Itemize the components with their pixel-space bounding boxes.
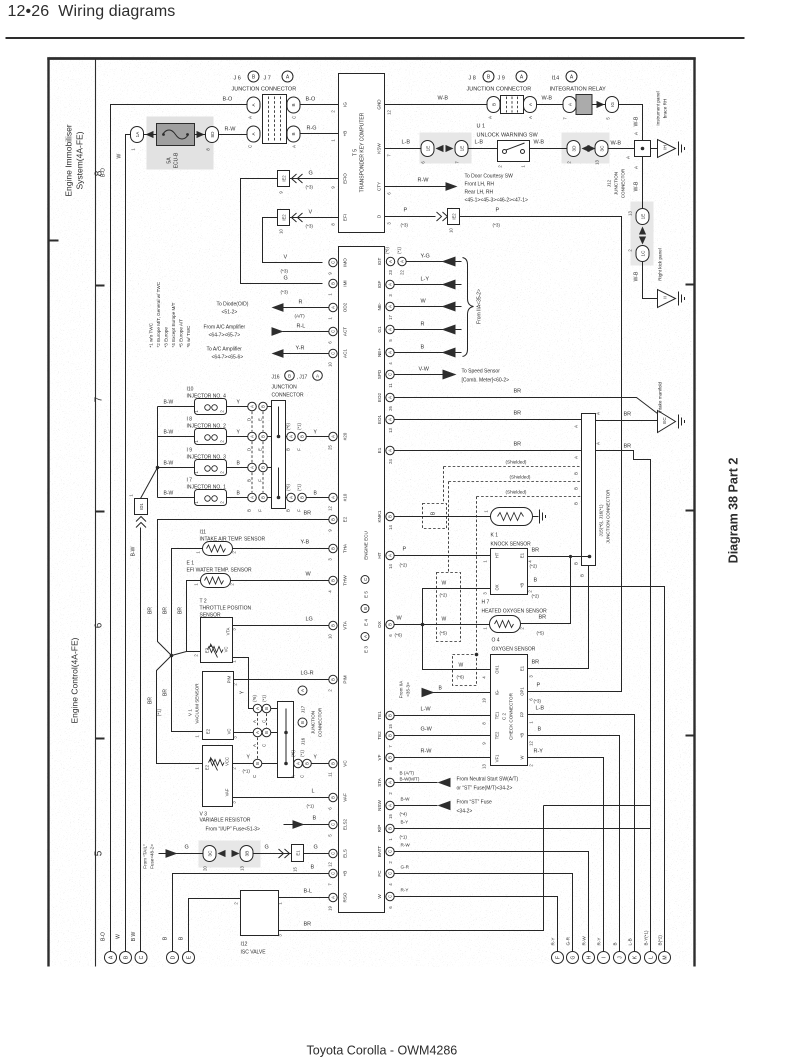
connector oval 3C <box>595 141 609 165</box>
svg-text:From IIA: From IIA <box>399 680 404 699</box>
node J15 row 450 <box>588 449 592 453</box>
ECU pin TE2 <box>377 731 394 748</box>
ECU pin TE1 <box>377 711 394 729</box>
svg-text:5: 5 <box>94 850 105 856</box>
svg-text:*5 Europe A/T: *5 Europe A/T <box>179 319 184 348</box>
svg-text:HT: HT <box>377 552 382 558</box>
svg-text:K 1: K 1 <box>491 533 499 539</box>
svg-text:J 8: J 8 <box>469 76 476 82</box>
svg-text:D: D <box>247 418 252 421</box>
connector box ID1 <box>129 494 148 515</box>
svg-text:J16: J16 <box>272 375 280 381</box>
label J8 J9 junction connector <box>467 71 532 93</box>
terminal E <box>183 952 195 964</box>
svg-text:B: B <box>331 624 336 627</box>
ECU pin VF <box>377 753 394 769</box>
svg-text:UNLOCK WARNING SW: UNLOCK WARNING SW <box>477 133 539 139</box>
wire into junction box <box>267 497 271 499</box>
wire Y from T2 VC pin <box>233 658 254 709</box>
svg-text:OD2: OD2 <box>343 302 348 312</box>
svg-text:B: B <box>300 496 305 499</box>
svg-text:A: A <box>388 260 393 263</box>
svg-text:A: A <box>289 496 294 499</box>
ECU pin #20 <box>328 432 348 450</box>
svg-text:PIM: PIM <box>227 675 232 683</box>
svg-text:NSW: NSW <box>377 799 382 810</box>
arrow into IG oval <box>597 101 605 108</box>
connector oval 1E first <box>421 141 435 164</box>
svg-text:A: A <box>388 418 393 421</box>
ECU pin E2 <box>328 515 348 531</box>
svg-text:G: G <box>284 276 288 282</box>
svg-text:26: 26 <box>388 406 393 411</box>
svg-text:HEATED OXYGEN SENSOR: HEATED OXYGEN SENSOR <box>482 609 548 615</box>
svg-text:A: A <box>528 116 533 119</box>
svg-text:(*6): (*6) <box>457 675 465 680</box>
wire B-L ISC pin1 to RSO <box>279 897 329 899</box>
svg-text:B: B <box>331 579 336 582</box>
wire L-B KSW to connector <box>385 148 422 150</box>
tick right border lower <box>686 735 695 737</box>
svg-text:E1: E1 <box>377 447 382 453</box>
label To Speed Sensor <box>462 369 510 384</box>
C2 pin +B right <box>520 733 534 746</box>
terminal H <box>582 936 595 964</box>
svg-text:I14: I14 <box>552 76 560 82</box>
svg-text:6: 6 <box>94 622 105 628</box>
svg-text:System(4A-FE): System(4A-FE) <box>75 131 85 189</box>
svg-text:(*3): (*3) <box>306 224 314 229</box>
wire B-O to IG pin <box>300 104 339 106</box>
ground II right kick panel <box>658 248 685 307</box>
T5 pin CTY <box>377 182 392 195</box>
wire row 708 into box <box>271 708 278 710</box>
connector oval 8D <box>206 127 219 151</box>
svg-text:OP1: OP1 <box>520 687 525 696</box>
svg-text:B: B <box>580 574 585 577</box>
svg-text:12: 12 <box>328 862 333 867</box>
label J12 junction connector <box>607 168 626 198</box>
svg-text:B-W: B-W <box>131 546 137 556</box>
svg-text:B-W(M/T): B-W(M/T) <box>400 777 420 782</box>
svg-text:G: G <box>314 845 318 851</box>
svg-text:B: B <box>331 547 336 550</box>
svg-text:B: B <box>331 678 336 681</box>
svg-text:VTA: VTA <box>343 620 348 630</box>
ECU pin IGT <box>377 247 406 275</box>
svg-text:J17: J17 <box>301 705 306 713</box>
svg-text:J 9: J 9 <box>498 76 505 82</box>
transponder key computer T5 block <box>339 74 385 233</box>
brace from IIA <box>463 258 474 357</box>
wire W-B GND to junction connector <box>385 104 488 106</box>
svg-text:J16: J16 <box>301 737 306 745</box>
svg-text:R-L: R-L <box>297 324 306 330</box>
C2 pin TE2 <box>482 731 500 745</box>
svg-text:B: B <box>255 762 260 765</box>
svg-text:B (A/T): B (A/T) <box>400 771 415 776</box>
svg-text:20: 20 <box>203 866 208 871</box>
svg-text:12: 12 <box>328 506 333 511</box>
svg-text:B: B <box>388 756 393 759</box>
wire V1 VC to connector <box>234 732 254 734</box>
svg-text:R-W: R-W <box>401 843 411 848</box>
svg-text:I 7: I 7 <box>187 478 193 484</box>
svg-text:B: B <box>574 472 579 475</box>
svg-text:V 1: V 1 <box>188 709 193 716</box>
svg-text:THA: THA <box>343 543 348 553</box>
svg-text:B: B <box>261 496 266 499</box>
ECU pin AC1 <box>328 349 348 367</box>
svg-text:C: C <box>331 872 336 875</box>
svg-text:(*1): (*1) <box>157 708 162 716</box>
ECU pin IMI <box>328 279 348 295</box>
label P (*3) OP1 <box>534 683 542 704</box>
svg-text:NE-: NE- <box>377 302 382 310</box>
svg-text:B: B <box>305 762 310 765</box>
svg-text:B-W: B-W <box>164 491 174 497</box>
svg-text:IG: IG <box>610 102 615 107</box>
svg-text:11: 11 <box>388 383 393 388</box>
fuse 5A ECU-B <box>157 124 195 169</box>
svg-text:Front LH, RH: Front LH, RH <box>465 182 495 188</box>
svg-text:15: 15 <box>388 814 393 819</box>
svg-text:11: 11 <box>328 772 333 777</box>
svg-text:A: A <box>331 496 336 499</box>
wire R-W VF <box>394 757 490 759</box>
svg-text:*4 Except Europe M/T: *4 Except Europe M/T <box>171 302 176 347</box>
svg-text:B: B <box>613 942 618 945</box>
connector pair VC output <box>291 750 312 778</box>
wire P HT to heated oxygen sensor <box>394 555 490 557</box>
svg-text:B: B <box>286 448 291 451</box>
svg-text:IG-: IG- <box>495 689 500 695</box>
svg-text:(*3): (*3) <box>493 223 501 228</box>
svg-text:B-O: B-O <box>101 168 107 177</box>
svg-text:J15(*6), J16(*1): J15(*6), J16(*1) <box>599 504 604 537</box>
wire BR jog to ISC <box>544 805 651 807</box>
svg-text:AC1: AC1 <box>343 349 348 358</box>
svg-text:(*1): (*1) <box>307 804 315 809</box>
svg-text:brace RH: brace RH <box>663 99 668 118</box>
svg-text:A: A <box>388 283 393 286</box>
svg-text:IMI: IMI <box>343 280 348 286</box>
C2 pin FP right <box>520 712 534 724</box>
svg-text:IG: IG <box>343 102 348 107</box>
svg-text:BR: BR <box>624 412 632 418</box>
label From TAIL fuse <box>143 844 155 869</box>
terminal K <box>628 938 641 963</box>
unlock warning switch U1 <box>498 141 530 168</box>
shading behind ECU-B fuse <box>147 117 214 170</box>
svg-text:C: C <box>139 955 145 959</box>
svg-text:(*1): (*1) <box>297 484 302 491</box>
svg-text:VF: VF <box>377 754 382 760</box>
svg-text:BR: BR <box>148 697 154 704</box>
svg-text:<45-1><45-3><46-2><47-1>: <45-1><45-3><46-2><47-1> <box>465 198 528 204</box>
wire B +B to J <box>528 736 620 952</box>
svg-text:CTY: CTY <box>377 182 382 191</box>
svg-text:E: E <box>258 448 263 451</box>
svg-text:ECU-B: ECU-B <box>174 152 180 168</box>
arrows between 3D 3C <box>582 145 590 152</box>
label From AC Amplifier <box>204 325 246 339</box>
svg-text:B: B <box>261 435 266 438</box>
svg-text:3C: 3C <box>600 145 605 152</box>
svg-text:B: B <box>300 721 305 724</box>
shield drain vertical H7 <box>448 482 450 573</box>
ECU pin +B <box>328 869 348 885</box>
wire R-Y W to F <box>394 897 557 952</box>
connector pair to ECU row 436 <box>286 423 307 451</box>
svg-text:P: P <box>404 208 408 214</box>
svg-text:L-W: L-W <box>421 707 432 713</box>
svg-text:IE2: IE2 <box>282 214 287 221</box>
svg-text:OX1: OX1 <box>495 665 500 674</box>
wire L-B to unlock switch <box>468 148 498 150</box>
wire BR Q4 up join <box>521 557 571 624</box>
frame outer left border <box>47 58 49 967</box>
wire G 3B to E1 box <box>253 853 292 855</box>
label I14 integration relay <box>550 71 607 93</box>
injector I7 INJECTOR NO. 1 <box>187 478 227 506</box>
svg-text:From “I/UP” Fuse<51-3>: From “I/UP” Fuse<51-3> <box>206 827 261 833</box>
wire BR ISC pin3 <box>279 806 544 931</box>
svg-text:R: R <box>421 322 425 328</box>
label U1 unlock warning sw <box>477 124 539 139</box>
relay box E1 <box>292 845 304 872</box>
C2 pin W right <box>520 755 534 766</box>
svg-text:W: W <box>116 934 122 939</box>
ECU pin NE- <box>377 302 394 320</box>
wire Y to ECU #20 <box>306 436 329 438</box>
C2 pin IG- <box>482 689 500 703</box>
svg-text:E 1: E 1 <box>187 561 195 567</box>
wire R ignition row <box>394 329 461 331</box>
shield drain vertical knock <box>443 467 445 504</box>
knock sensor K1 <box>484 508 533 548</box>
svg-text:B: B <box>574 487 579 490</box>
svg-text:E1: E1 <box>520 552 525 558</box>
wire R-W fuse to junction connector <box>219 134 248 136</box>
label BR (*2) <box>530 548 540 569</box>
svg-text:F: F <box>297 448 302 451</box>
svg-text:HT: HT <box>495 552 500 558</box>
wire Y from VCC <box>233 763 254 765</box>
wire B-W lead injector <box>158 436 195 438</box>
connector oval A row2 left <box>247 126 260 148</box>
ECU pin NE+ <box>377 348 394 365</box>
T5 pin GND <box>377 99 392 115</box>
wire B-O top loop <box>111 105 248 952</box>
svg-text:C: C <box>363 578 368 581</box>
arrow to speed sensor <box>443 370 457 380</box>
svg-text:1E: 1E <box>426 146 431 152</box>
connector oval 1E second <box>455 141 469 164</box>
wire Y injector output <box>227 406 248 408</box>
wire R-L from AC amplifier <box>283 331 329 333</box>
svg-text:B: B <box>291 132 296 135</box>
svg-text:A: A <box>574 425 579 428</box>
wire B ISC pin2 to E <box>189 899 241 952</box>
wire KNK1 to knock sensor <box>394 516 490 518</box>
svg-text:JUNCTION CONNECTOR: JUNCTION CONNECTOR <box>606 489 611 544</box>
wire Y-G ignition row <box>406 261 461 263</box>
svg-text:1E: 1E <box>460 146 465 152</box>
ECU pin KNK1 <box>377 510 394 530</box>
label W (*6) OX1 <box>457 663 465 680</box>
ECU pin VAF <box>328 793 348 810</box>
svg-text:A: A <box>250 466 255 469</box>
svg-text:BR: BR <box>148 607 154 614</box>
svg-text:B-W: B-W <box>164 400 174 406</box>
svg-text:(*2): (*2) <box>400 563 408 568</box>
T5 pin EFIO <box>331 173 348 189</box>
svg-text:8D: 8D <box>210 131 215 138</box>
svg-text:A: A <box>248 116 253 119</box>
wire row 732 into box <box>271 732 278 734</box>
connector pair injector row <box>248 493 268 502</box>
svg-text:B: B <box>331 282 336 285</box>
wire Y injector output <box>227 436 248 438</box>
svg-text:M: M <box>663 955 669 959</box>
ECU pin #10 <box>328 493 348 511</box>
connector pair row 708 <box>252 695 271 723</box>
svg-text:LG-R: LG-R <box>301 671 314 677</box>
wire G to ELS <box>304 853 329 855</box>
connector pair row 732 <box>252 728 271 747</box>
svg-text:A: A <box>388 351 393 354</box>
label W (*5) branch <box>440 617 448 636</box>
svg-text:B: B <box>300 435 305 438</box>
svg-text:19: 19 <box>482 698 487 703</box>
terminal J <box>613 942 626 963</box>
wire B from +B down to D <box>173 874 329 952</box>
ECU pin VTA <box>328 620 348 639</box>
tick right border middle <box>686 510 695 512</box>
svg-text:A: A <box>250 496 255 499</box>
sensor V1 vacuum <box>188 672 238 740</box>
svg-text:B W: B W <box>131 932 137 942</box>
svg-text:A: A <box>596 412 601 415</box>
junction connector J8/J9 box <box>501 96 524 114</box>
T5 pin D <box>377 214 392 225</box>
svg-text:R-W: R-W <box>421 749 433 755</box>
sensor V3 variable resistor <box>195 746 251 824</box>
wire BR from E2 <box>158 520 329 656</box>
frame top border <box>47 57 695 60</box>
svg-text:BR: BR <box>532 660 540 666</box>
svg-text:B: B <box>261 405 266 408</box>
wire L-B FP to K <box>528 715 635 952</box>
label W (*6) at pin <box>395 616 403 638</box>
svg-text:OXYGEN SENSOR: OXYGEN SENSOR <box>492 647 536 653</box>
svg-text:EFI WATER TEMP. SENSOR: EFI WATER TEMP. SENSOR <box>187 568 252 574</box>
engine ECU block <box>339 247 385 913</box>
svg-text:EC: EC <box>662 417 667 424</box>
svg-text:*2 Europe M/T, General w/ TWC: *2 Europe M/T, General w/ TWC <box>156 281 161 347</box>
svg-text:B-O: B-O <box>101 932 107 941</box>
connector oval 1A <box>131 127 144 151</box>
wire BR water temp drain <box>172 581 201 656</box>
svg-text:(*1): (*1) <box>243 769 251 774</box>
svg-text:B: B <box>264 707 269 710</box>
wire W-B to integration relay <box>537 104 564 106</box>
shielded drain row 481 <box>449 481 590 483</box>
svg-text:B: B <box>421 345 425 351</box>
svg-text:+B: +B <box>343 871 348 877</box>
svg-text:B: B <box>574 502 579 505</box>
svg-text:A: A <box>289 435 294 438</box>
svg-text:*6 w/ TWC: *6 w/ TWC <box>186 325 191 348</box>
wire B-W lead injector <box>158 406 195 408</box>
injector I8 INJECTOR NO. 2 <box>187 417 227 445</box>
ECU pin IMO <box>328 258 348 275</box>
svg-text:VARIABLE RESISTOR: VARIABLE RESISTOR <box>200 818 251 824</box>
wire node to IH ground <box>651 148 658 150</box>
svg-text:Y-R: Y-R <box>296 346 305 352</box>
svg-text:B: B <box>247 509 252 512</box>
svg-text:B-Y(*1): B-Y(*1) <box>644 930 649 946</box>
svg-text:VTA: VTA <box>226 627 231 635</box>
connector pair injector row <box>248 402 268 411</box>
svg-text:Right kick panel: Right kick panel <box>658 248 663 280</box>
svg-text:A: A <box>291 775 296 778</box>
svg-text:II: II <box>663 296 668 299</box>
svg-text:E1: E1 <box>520 665 525 671</box>
svg-text:B: B <box>311 865 315 871</box>
svg-text:A: A <box>292 145 297 148</box>
oxygen sensor Q4 <box>483 616 536 653</box>
dashed connector links left column <box>252 412 263 493</box>
svg-text:(*3): (*3) <box>401 223 409 228</box>
svg-text:B: B <box>261 466 266 469</box>
sidebar inner border <box>95 59 97 967</box>
svg-text:BR: BR <box>514 442 522 448</box>
ECU pin OX <box>377 620 394 636</box>
svg-text:INTEGRATION RELAY: INTEGRATION RELAY <box>550 87 607 93</box>
svg-text:W: W <box>377 894 382 899</box>
svg-text:ISC VALVE: ISC VALVE <box>241 950 267 956</box>
arrow I/UP fuse <box>293 820 305 829</box>
svg-text:A: A <box>388 449 393 452</box>
wire BR junction to EC ground <box>596 420 658 422</box>
check connector C2 <box>491 655 528 766</box>
svg-text:C 2: C 2 <box>502 712 507 720</box>
label B (*2) <box>532 578 540 599</box>
svg-text:C: C <box>388 872 393 875</box>
svg-text:or “ST” Fuse(M/T)<34-2>: or “ST” Fuse(M/T)<34-2> <box>457 786 513 792</box>
svg-text:BR: BR <box>514 411 522 417</box>
wire W OX with branch <box>394 624 489 626</box>
wire G loop to IMI <box>241 179 323 284</box>
wire B junction bottom to check connector E1 <box>528 566 589 669</box>
wire BR H7 E1 to junction bottom <box>528 556 590 558</box>
svg-text:L-B: L-B <box>402 140 411 146</box>
svg-text:B: B <box>388 827 393 830</box>
svg-text:F: F <box>258 509 263 512</box>
chevrons below ID1 <box>136 517 146 528</box>
svg-text:BR: BR <box>178 607 184 614</box>
svg-text:B: B <box>388 714 393 717</box>
svg-text:C: C <box>331 352 336 355</box>
tick section 8/7 <box>96 285 105 287</box>
svg-text:+B: +B <box>520 733 525 738</box>
svg-text:C: C <box>248 145 253 148</box>
svg-text:17: 17 <box>388 315 393 320</box>
svg-text:1C: 1C <box>641 250 646 257</box>
svg-text:12: 12 <box>387 110 392 115</box>
